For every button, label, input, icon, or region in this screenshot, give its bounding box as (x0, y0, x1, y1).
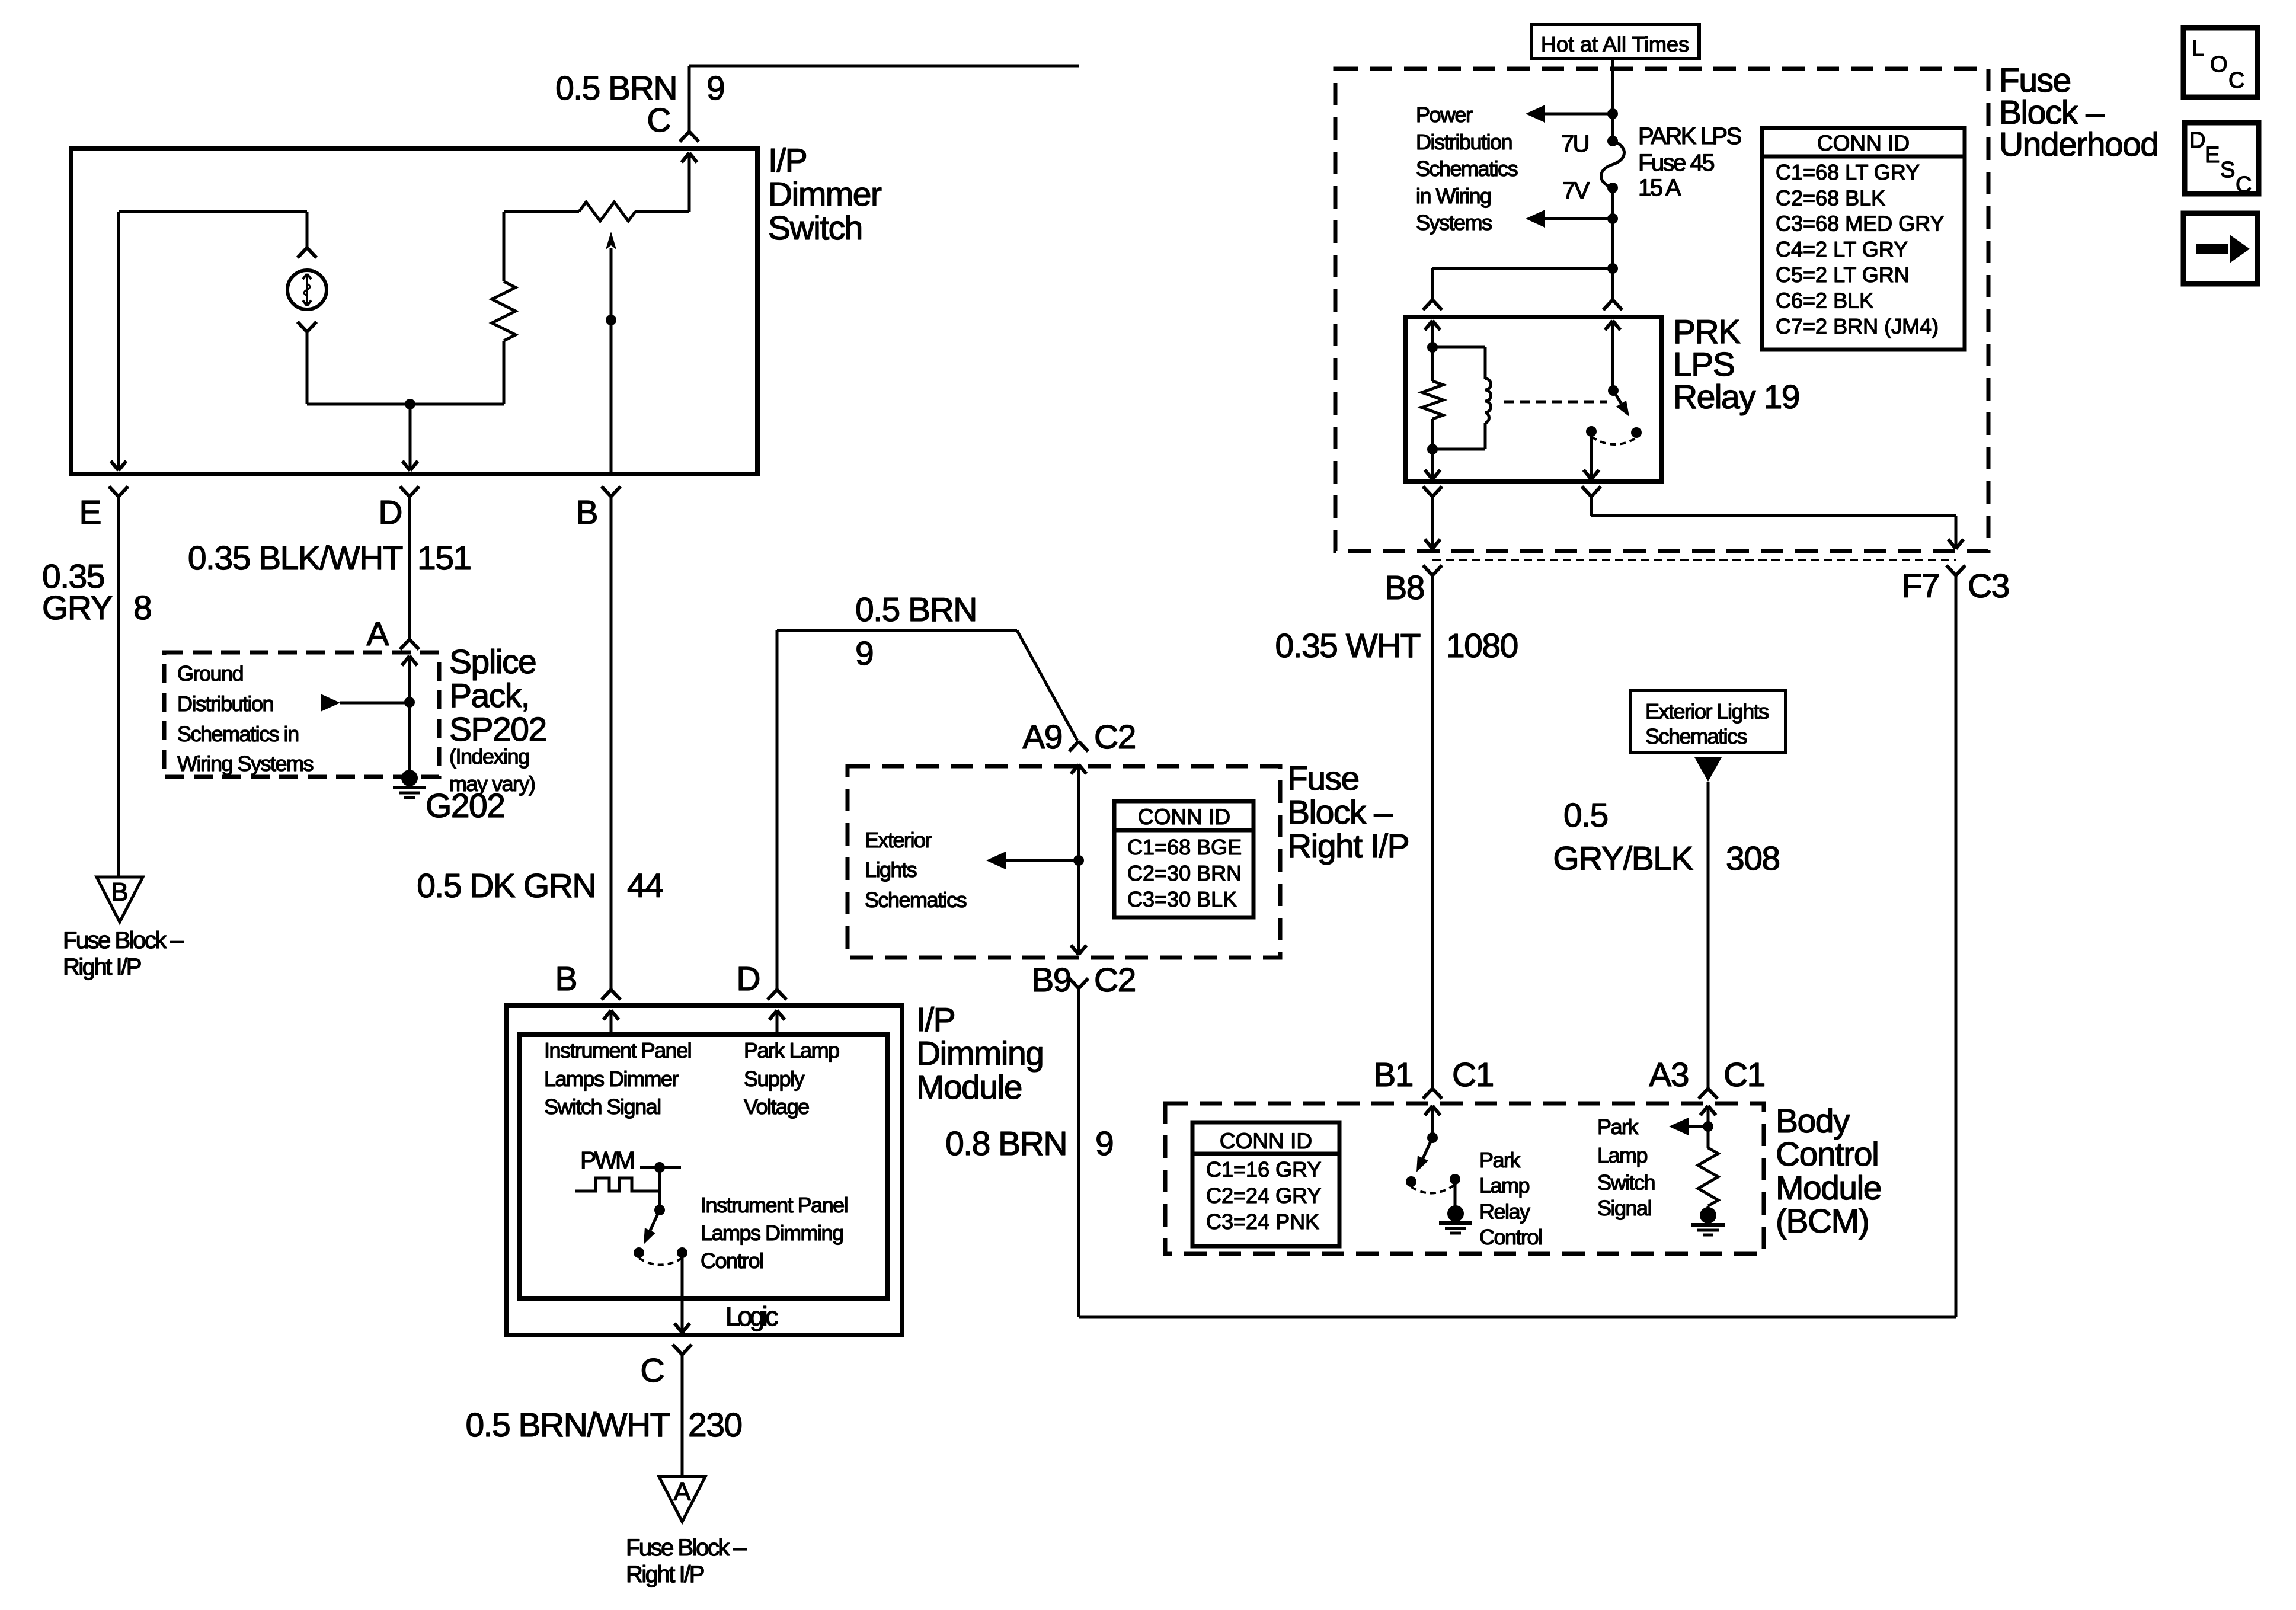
svg-text:Voltage: Voltage (744, 1094, 809, 1119)
svg-text:Supply: Supply (744, 1067, 805, 1091)
svg-text:GRY/BLK: GRY/BLK (1553, 840, 1693, 878)
svg-text:Park: Park (1597, 1115, 1639, 1139)
svg-text:Exterior: Exterior (865, 828, 932, 852)
svg-text:A9: A9 (1022, 718, 1062, 756)
svg-text:B8: B8 (1384, 569, 1424, 607)
svg-text:GRY: GRY (42, 589, 112, 627)
svg-text:(BCM): (BCM) (1776, 1202, 1869, 1240)
svg-text:Right I/P: Right I/P (626, 1561, 704, 1587)
svg-text:CONN ID: CONN ID (1817, 131, 1910, 155)
svg-text:230: 230 (688, 1406, 742, 1444)
svg-text:Wiring Systems: Wiring Systems (177, 751, 314, 776)
svg-text:Module: Module (1776, 1169, 1881, 1207)
svg-text:Park: Park (1479, 1148, 1521, 1172)
svg-text:C3=24 PNK: C3=24 PNK (1206, 1209, 1319, 1234)
svg-text:G202: G202 (426, 787, 504, 825)
svg-text:Hot at All Times: Hot at All Times (1541, 32, 1689, 56)
svg-text:C3=68 MED GRY: C3=68 MED GRY (1776, 212, 1944, 236)
svg-text:Block –: Block – (1287, 793, 1393, 831)
svg-text:9: 9 (1095, 1125, 1113, 1163)
svg-text:0.5 DK GRN: 0.5 DK GRN (417, 867, 596, 905)
svg-text:L: L (2192, 36, 2204, 61)
svg-text:Right I/P: Right I/P (63, 954, 141, 980)
svg-text:Module: Module (916, 1068, 1022, 1106)
svg-text:D: D (2189, 128, 2205, 153)
svg-text:C6=2 BLK: C6=2 BLK (1776, 289, 1873, 313)
svg-text:Right I/P: Right I/P (1287, 827, 1409, 865)
svg-text:F7: F7 (1901, 567, 1939, 605)
svg-text:C2=24 GRY: C2=24 GRY (1206, 1183, 1321, 1208)
svg-text:C: C (2228, 68, 2244, 93)
svg-text:0.8 BRN: 0.8 BRN (945, 1125, 1067, 1163)
svg-text:Switch: Switch (768, 209, 862, 247)
svg-text:Schematics: Schematics (1416, 156, 1518, 181)
svg-text:C: C (647, 101, 670, 139)
svg-text:Splice: Splice (449, 643, 536, 681)
svg-text:C2: C2 (1094, 961, 1136, 999)
svg-text:Fuse: Fuse (1287, 760, 1359, 798)
svg-text:Lamp: Lamp (1479, 1173, 1530, 1198)
svg-text:B1: B1 (1373, 1056, 1413, 1094)
svg-text:Switch Signal: Switch Signal (544, 1094, 661, 1119)
svg-text:CONN ID: CONN ID (1138, 805, 1230, 829)
svg-text:B: B (575, 494, 597, 532)
svg-text:CONN ID: CONN ID (1220, 1129, 1312, 1153)
svg-text:9: 9 (855, 635, 873, 673)
svg-text:B: B (111, 878, 128, 907)
svg-text:Instrument Panel: Instrument Panel (701, 1193, 848, 1217)
svg-text:Distribution: Distribution (177, 692, 273, 716)
svg-text:1080: 1080 (1446, 627, 1518, 665)
svg-text:Power: Power (1416, 103, 1473, 127)
svg-text:C1: C1 (1723, 1056, 1765, 1094)
svg-text:Park Lamp: Park Lamp (744, 1038, 839, 1062)
svg-text:0.5: 0.5 (1563, 796, 1608, 834)
svg-text:A: A (673, 1477, 691, 1506)
svg-text:Fuse 45: Fuse 45 (1638, 150, 1714, 176)
svg-text:C1=68 LT GRY: C1=68 LT GRY (1776, 160, 1920, 184)
svg-text:Relay 19: Relay 19 (1673, 378, 1799, 416)
svg-text:0.35 WHT: 0.35 WHT (1275, 627, 1420, 665)
svg-text:Control: Control (1479, 1225, 1542, 1249)
svg-text:C1: C1 (1452, 1056, 1494, 1094)
svg-text:0.35 BLK/WHT: 0.35 BLK/WHT (188, 539, 403, 577)
svg-text:8: 8 (133, 589, 151, 627)
svg-text:I/P: I/P (916, 1001, 955, 1039)
svg-text:D: D (736, 960, 760, 998)
svg-text:C2=68 BLK: C2=68 BLK (1776, 185, 1885, 210)
svg-text:Lamps Dimmer: Lamps Dimmer (544, 1067, 679, 1091)
svg-text:7U: 7U (1561, 131, 1588, 157)
svg-text:9: 9 (706, 69, 724, 107)
svg-text:Schematics in: Schematics in (177, 722, 299, 746)
svg-text:0.5 BRN: 0.5 BRN (855, 591, 977, 629)
svg-text:C2: C2 (1094, 718, 1136, 756)
svg-text:Control: Control (1776, 1135, 1878, 1173)
svg-text:Body: Body (1776, 1102, 1850, 1140)
svg-text:C2=30 BRN: C2=30 BRN (1127, 861, 1242, 885)
svg-text:Control: Control (701, 1249, 763, 1273)
svg-text:I/P: I/P (768, 142, 807, 180)
svg-text:C5=2 LT GRN: C5=2 LT GRN (1776, 263, 1910, 287)
svg-text:Dimmer: Dimmer (768, 175, 882, 213)
svg-text:15 A: 15 A (1638, 175, 1681, 201)
svg-text:E: E (2205, 143, 2220, 168)
svg-text:Ground: Ground (177, 661, 243, 686)
svg-text:Logic: Logic (725, 1301, 778, 1331)
svg-text:E: E (79, 494, 101, 532)
svg-text:Schematics: Schematics (1645, 724, 1747, 748)
svg-text:C3=30 BLK: C3=30 BLK (1127, 887, 1237, 911)
svg-text:C: C (640, 1352, 664, 1390)
svg-text:Relay: Relay (1479, 1199, 1530, 1224)
svg-text:151: 151 (417, 539, 471, 577)
svg-text:C4=2 LT GRY: C4=2 LT GRY (1776, 237, 1908, 261)
svg-text:C7=2 BRN (JM4): C7=2 BRN (JM4) (1776, 314, 1939, 338)
svg-text:Fuse Block –: Fuse Block – (626, 1535, 747, 1561)
svg-text:44: 44 (627, 867, 663, 905)
svg-text:PWM: PWM (580, 1147, 634, 1174)
svg-text:Systems: Systems (1416, 210, 1492, 235)
svg-text:Lamp: Lamp (1597, 1143, 1648, 1167)
svg-text:Fuse Block –: Fuse Block – (63, 927, 184, 953)
svg-text:Switch: Switch (1597, 1170, 1655, 1195)
svg-text:C3: C3 (1968, 567, 2009, 605)
svg-text:0.5 BRN/WHT: 0.5 BRN/WHT (465, 1406, 670, 1444)
svg-text:SP202: SP202 (449, 710, 546, 748)
svg-text:Underhood: Underhood (1999, 126, 2159, 164)
svg-text:C1=16 GRY: C1=16 GRY (1206, 1157, 1321, 1182)
svg-text:in Wiring: in Wiring (1416, 184, 1491, 208)
svg-text:(Indexing: (Indexing (449, 744, 529, 769)
svg-text:308: 308 (1726, 840, 1780, 878)
svg-text:Dimming: Dimming (916, 1035, 1043, 1073)
svg-text:Schematics: Schematics (865, 888, 967, 912)
svg-text:A3: A3 (1649, 1056, 1689, 1094)
svg-text:C: C (2236, 172, 2252, 197)
svg-text:B9: B9 (1031, 961, 1071, 999)
svg-text:Distribution: Distribution (1416, 130, 1512, 154)
svg-text:A: A (366, 615, 389, 653)
svg-text:Pack,: Pack, (449, 677, 529, 715)
svg-text:Instrument Panel: Instrument Panel (544, 1038, 691, 1062)
svg-text:O: O (2210, 52, 2228, 77)
svg-text:Signal: Signal (1597, 1196, 1651, 1220)
svg-text:S: S (2220, 158, 2235, 183)
svg-text:D: D (378, 494, 402, 532)
svg-text:Exterior Lights: Exterior Lights (1645, 699, 1769, 724)
svg-text:C1=68 BGE: C1=68 BGE (1127, 835, 1242, 859)
svg-text:Lights: Lights (865, 857, 917, 882)
svg-text:7V: 7V (1562, 178, 1590, 204)
svg-text:PARK LPS: PARK LPS (1638, 123, 1741, 149)
svg-text:Lamps Dimming: Lamps Dimming (701, 1221, 843, 1245)
svg-text:B: B (555, 960, 577, 998)
